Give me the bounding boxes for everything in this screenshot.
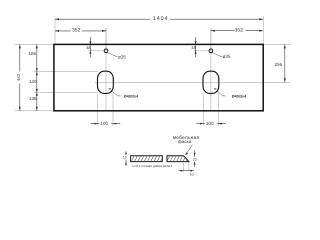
svg-text:48: 48 (191, 45, 196, 50)
svg-text:136: 136 (29, 96, 37, 101)
svg-text:Ø40/3x4: Ø40/3x4 (124, 95, 139, 99)
svg-text:352: 352 (235, 27, 244, 33)
svg-text:10: 10 (190, 172, 194, 176)
svg-text:352: 352 (72, 28, 81, 34)
svg-text:10: 10 (123, 155, 127, 159)
svg-text:1404: 1404 (153, 16, 169, 22)
svg-text:100: 100 (206, 121, 214, 126)
svg-text:186: 186 (29, 51, 37, 56)
svg-text:Ø40/3x4: Ø40/3x4 (232, 95, 247, 99)
svg-text:ø35: ø35 (118, 54, 126, 59)
svg-text:ø35: ø35 (223, 54, 231, 59)
svg-text:48: 48 (86, 45, 91, 50)
svg-text:20: 20 (193, 158, 197, 162)
svg-text:256: 256 (275, 62, 283, 67)
svg-text:100: 100 (100, 121, 108, 126)
svg-text:фаска: фаска (178, 139, 192, 144)
svg-text:462: 462 (16, 73, 21, 81)
svg-text:L=0.1 полная длина разм.1: L=0.1 полная длина разм.1 (132, 164, 172, 168)
svg-text:140: 140 (29, 79, 37, 84)
